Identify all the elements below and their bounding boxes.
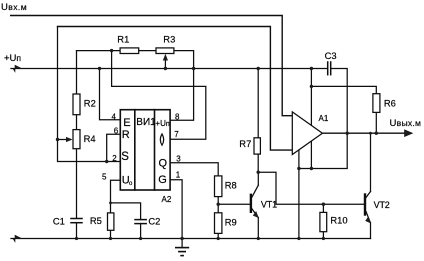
svg-text:A1: A1 — [319, 114, 329, 123]
node Uvx.m label — [1, 2, 27, 13]
IC pin label R — [122, 129, 130, 141]
svg-text:1: 1 — [176, 171, 181, 180]
wire Uvx.m top line to op-amp noninverting input — [11, 16, 293, 116]
transistor VT1 — [251, 172, 259, 238]
wire op-amp output line with arrow — [322, 132, 410, 134]
op-amp U1 timer IC box BI1 A2 — [120, 110, 170, 190]
transistor VT2 — [365, 133, 371, 238]
IC pin label G — [158, 174, 167, 186]
IC pin label E — [123, 117, 130, 129]
resistor R10 — [320, 212, 327, 231]
wire left vertical from second line down to S pin line — [58, 27, 121, 162]
arrow ground rail input arrowhead — [13, 235, 22, 242]
wire second top line to op-amp inverting input — [58, 27, 293, 151]
wire C2 bottom to ground rail — [140, 224, 142, 238]
wire R3 wiper arrow from rail — [164, 57, 166, 69]
svg-text:+Uп: +Uп — [155, 119, 169, 128]
pin number 3 — [176, 155, 181, 164]
svg-text:Q: Q — [159, 158, 168, 170]
resistor R6 — [373, 94, 380, 113]
wire base line from R8-R9 junction to VT1 base — [218, 203, 250, 205]
svg-text:3: 3 — [176, 155, 181, 164]
wire VT1 collector junction to VT2 base line — [258, 172, 364, 204]
svg-text:8: 8 — [175, 113, 180, 122]
wire R10 column — [322, 204, 324, 212]
IC pin label Q — [159, 158, 168, 170]
svg-text:R3: R3 — [163, 33, 175, 44]
capacitor C2 — [135, 220, 146, 224]
IC pin label U0 — [122, 175, 133, 188]
svg-text:R1: R1 — [117, 33, 129, 44]
wire ground rail bottom — [11, 238, 371, 240]
svg-text:G: G — [158, 174, 167, 186]
svg-text:7: 7 — [174, 130, 179, 139]
wire R9 bottom to ground rail — [217, 233, 219, 238]
svg-text:C1: C1 — [53, 215, 65, 226]
svg-text:2: 2 — [112, 154, 117, 163]
arrow +Up rail input arrowhead — [13, 65, 22, 72]
svg-text:+Uп: +Uп — [4, 53, 21, 64]
capacitor C1 — [71, 219, 82, 223]
wire R2 R4 C1 column — [76, 51, 78, 218]
svg-text:A2: A2 — [162, 195, 172, 204]
ground — [176, 248, 189, 256]
wire R8 bottom to R9 top with base tap — [217, 197, 219, 213]
svg-text:C2: C2 — [148, 215, 160, 226]
resistor R2 — [73, 94, 80, 115]
wire branch from R5 column to C2 top — [111, 203, 141, 219]
svg-text:Uвх.м: Uвх.м — [1, 2, 27, 13]
IC pin label S — [121, 151, 129, 163]
pin number 8 — [175, 113, 180, 122]
wire R6 bottom to output line — [375, 112, 377, 133]
wire R4 wiper arrow from left vertical — [58, 139, 69, 141]
wire G pin 1 to ground symbol — [170, 180, 182, 248]
pin number 1 — [176, 171, 181, 180]
IC designator A2 — [162, 195, 172, 204]
resistor R5 — [108, 213, 114, 230]
wire +Up supply rail — [11, 68, 327, 70]
wire Q pin 3 to R8 — [170, 163, 218, 176]
pin number 5 — [102, 173, 107, 182]
svg-text:VT2: VT2 — [374, 200, 390, 210]
resistor R1 — [120, 48, 139, 54]
pin number 7 — [174, 130, 179, 139]
pin number 2 — [112, 154, 117, 163]
svg-text:C3: C3 — [325, 50, 337, 61]
wire op-amp power pin A down to ground rail — [298, 150, 300, 239]
svg-text:4: 4 — [112, 113, 117, 122]
svg-text:R8: R8 — [225, 180, 237, 191]
wire op-amp feed vertical B through triangle — [310, 69, 312, 169]
svg-text:6: 6 — [114, 127, 119, 136]
wire R7 bottom to VT1 collector junction — [257, 154, 259, 172]
resistor R9 — [215, 213, 222, 234]
IC discharge pin diamond symbol — [160, 134, 163, 145]
svg-text:R7: R7 — [239, 138, 251, 149]
svg-text:VT1: VT1 — [261, 199, 277, 209]
node Uvyx.m label — [390, 118, 422, 129]
resistor R7 — [254, 138, 260, 154]
wire C3 right to output line and op-amp lower rail — [299, 69, 347, 169]
wire R1-R3 top wire from R2 column to IC +Un pin — [77, 51, 194, 121]
wire R pin 6 down to S line — [107, 134, 121, 161]
svg-text:ВИ1: ВИ1 — [136, 117, 156, 128]
pin number 6 — [114, 127, 119, 136]
svg-text:S: S — [121, 151, 129, 163]
resistor R8 — [215, 176, 222, 197]
wire R5 bottom to ground rail — [110, 230, 112, 238]
wire R6 feed line — [311, 86, 376, 93]
node +Up label — [4, 53, 21, 64]
wire C1 bottom to ground rail — [76, 223, 78, 238]
svg-text:5: 5 — [102, 173, 107, 182]
svg-text:Uвых.м: Uвых.м — [390, 118, 422, 129]
resistor R4 — [73, 130, 80, 149]
wire from R1 left junction down and over to discharge pin 7 — [112, 51, 206, 140]
pin number 4 — [112, 113, 117, 122]
svg-text:R: R — [122, 129, 130, 141]
wire E pin 4 up to +Up rail — [100, 69, 121, 120]
IC label BI1 — [136, 117, 156, 128]
svg-text:R5: R5 — [90, 215, 102, 226]
IC pin label +Un — [155, 119, 169, 128]
svg-text:R9: R9 — [225, 216, 237, 227]
wire U0 pin 5 to R5 top — [111, 180, 121, 213]
capacitor C3 — [328, 62, 331, 75]
svg-text:R2: R2 — [84, 97, 96, 108]
svg-text:E: E — [123, 117, 130, 129]
wire R7 top to +Up rail — [257, 69, 259, 138]
op-amp A1 — [292, 112, 322, 155]
svg-text:R4: R4 — [84, 133, 96, 144]
svg-text:R6: R6 — [384, 97, 396, 108]
svg-text:R10: R10 — [330, 214, 347, 225]
resistor R3 — [156, 48, 174, 54]
